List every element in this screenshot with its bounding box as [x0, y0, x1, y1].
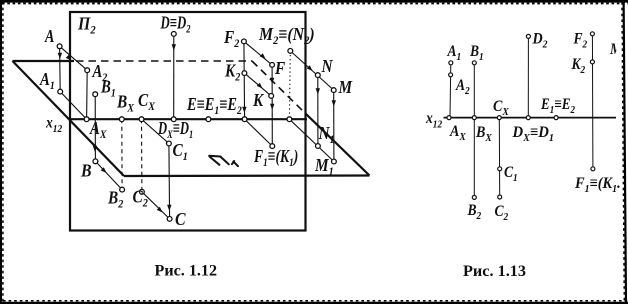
point A1	[58, 89, 63, 94]
arrow on F2-F	[260, 53, 266, 59]
wire F through K to F1 vertical	[271, 65, 273, 146]
point BX	[119, 117, 124, 122]
plane P1 right slanted edge hidden dashed part	[252, 61, 306, 114]
point M2 N2	[288, 49, 293, 54]
wire A2 to AX vertical	[86, 70, 89, 119]
wire M2 to axis dotted vertical	[288, 51, 291, 119]
svg-text:DX≡D1: DX≡D1	[157, 119, 193, 142]
white mask over M fragment	[616, 38, 621, 56]
svg-text:F: F	[274, 58, 285, 78]
page border left	[1, 0, 3, 304]
wire C2 to C diagonal	[142, 192, 170, 219]
point DX right	[526, 116, 530, 120]
wire F2 K2 to F1 vertical	[591, 34, 594, 169]
wire B to B2 diagonal	[95, 161, 122, 189]
svg-text:E1≡E2: E1≡E2	[540, 96, 575, 116]
arrow on D-DX	[172, 44, 176, 50]
svg-text:K: K	[252, 90, 265, 110]
wire D to DX vertical	[173, 34, 175, 119]
point N	[315, 73, 320, 78]
page border top	[0, 1, 628, 3]
point B1	[93, 92, 98, 97]
wire C1 to C vertical	[168, 144, 171, 219]
point CX	[139, 117, 144, 122]
arrow on M2-N	[307, 65, 313, 71]
wire CX to C2 vertical	[498, 118, 500, 197]
wire D2 to DX vertical	[527, 36, 529, 117]
arrow on A-A1	[58, 53, 62, 59]
point F2	[242, 39, 247, 44]
point DX D1	[171, 117, 176, 122]
wire A to A1 vertical	[59, 46, 62, 91]
wire F2 to F diagonal	[244, 41, 272, 65]
point AX	[84, 117, 89, 122]
wire M2 through N to M diagonal	[290, 51, 333, 90]
point N1	[316, 144, 321, 149]
point K2 right	[590, 60, 594, 64]
wire F2 K2 to axis vertical	[243, 41, 246, 119]
point E	[206, 117, 211, 122]
arrow on K2-K	[257, 83, 263, 89]
arrow on F2K2 axis line	[242, 107, 246, 113]
wire A1 to AX diagonal	[60, 92, 86, 120]
point B2 right	[472, 195, 476, 199]
wire N to N1 vertical	[317, 75, 319, 146]
wire axis point to F1 diagonal	[245, 119, 273, 146]
point A	[57, 44, 62, 49]
plane P2 rectangle	[70, 12, 306, 231]
svg-text:Рис. 1.13: Рис. 1.13	[463, 263, 526, 280]
point C2 right	[498, 195, 502, 199]
svg-text:D≡D2: D≡D2	[160, 14, 191, 36]
point F2 right	[590, 32, 594, 36]
point F1 K1	[270, 144, 275, 149]
plane P1 top edge dashed (hidden behind P2)	[76, 60, 252, 62]
svg-text:B: B	[80, 161, 92, 181]
point C2	[140, 189, 145, 194]
point C1	[167, 141, 172, 146]
point BX right	[472, 116, 476, 120]
wire CX to C1 diagonal	[142, 119, 169, 143]
svg-text:M: M	[338, 77, 354, 97]
arrow on A-A2	[66, 55, 72, 61]
wire axis point to N1 M1 diagonal	[289, 119, 336, 163]
point M1	[332, 159, 337, 164]
arrow on C1-C	[167, 205, 171, 211]
projection direction symbol	[209, 156, 238, 166]
svg-text:E≡E1≡E2: E≡E1≡E2	[186, 93, 242, 117]
point B1 right	[472, 61, 476, 65]
page border right	[622, 0, 626, 304]
arrow on M-M1	[332, 100, 336, 106]
arrow on K-F1 lower	[270, 104, 274, 110]
point A1 right	[449, 61, 453, 65]
plane P1 left slanted edge	[13, 61, 125, 176]
point F1 right	[591, 167, 595, 171]
svg-text:A: A	[44, 28, 54, 47]
point A2 right	[449, 73, 453, 77]
arrow on C2-C	[157, 207, 163, 213]
point F	[270, 63, 275, 68]
point MX on axis	[287, 117, 292, 122]
wire M to M1 vertical	[333, 90, 335, 161]
point A2	[85, 68, 90, 73]
point C	[167, 217, 172, 222]
plane P1 top edge solid segment	[13, 60, 75, 62]
arrow on B-B2	[101, 167, 107, 173]
arrow on F-K upper	[270, 78, 274, 84]
wire BX to B2 dashed vertical	[121, 119, 123, 189]
x12 axis line	[70, 118, 307, 120]
plane P1 right slanted edge solid part	[306, 114, 370, 176]
svg-text:Рис. 1.12: Рис. 1.12	[155, 263, 218, 280]
wire B1 to B vertical	[94, 94, 96, 161]
point CX right	[497, 116, 501, 120]
arrow on N-N1	[316, 88, 320, 94]
svg-text:N: N	[321, 56, 334, 76]
point AX right	[447, 116, 451, 120]
point C1 right	[498, 167, 502, 171]
svg-text:C: C	[175, 209, 186, 229]
page border bottom	[0, 301, 628, 303]
x axis line	[444, 117, 617, 119]
point B2	[120, 187, 125, 192]
point K	[269, 94, 274, 99]
svg-text:DX≡D1: DX≡D1	[512, 123, 554, 144]
point B	[93, 159, 98, 164]
wire A1 A2 to AX vertical	[449, 63, 452, 118]
point D2 right	[526, 34, 530, 38]
plane P1 bottom edge	[124, 174, 370, 177]
point M	[331, 88, 336, 93]
wire K2 to K diagonal	[244, 73, 271, 96]
arrow on B1-B	[93, 146, 97, 152]
point D	[171, 32, 176, 37]
wire B1 to B2 vertical	[473, 63, 475, 198]
wire CX to C2 dashed vertical	[141, 119, 143, 192]
point K2	[242, 71, 247, 76]
point FX KX on axis	[242, 117, 247, 122]
wire A to A2 diagonal	[60, 46, 88, 70]
point E right	[554, 116, 558, 120]
